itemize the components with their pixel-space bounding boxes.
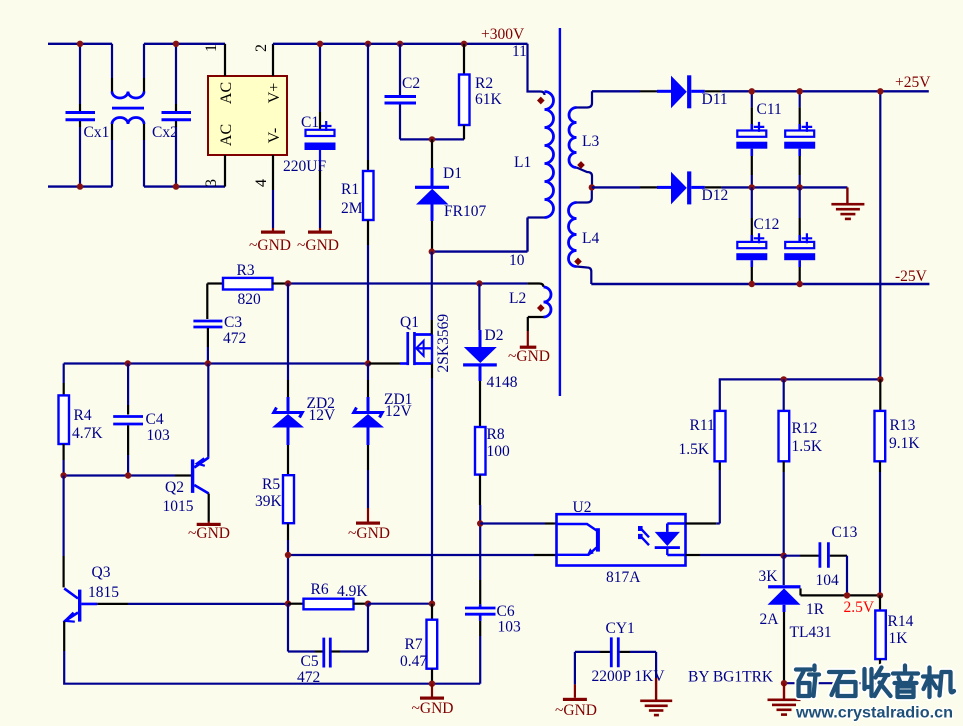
- wire left rail: [62, 476, 64, 588]
- capacitor C12b: [784, 187, 815, 284]
- svg-text:CY1: CY1: [606, 620, 635, 637]
- svg-text:472: 472: [223, 330, 246, 347]
- svg-text:R4: R4: [74, 407, 92, 424]
- svg-text:D11: D11: [702, 91, 728, 108]
- wire +300V rail: [273, 43, 528, 45]
- wire Q2 emitter line: [207, 364, 209, 457]
- svg-text:C1: C1: [301, 114, 319, 131]
- resistor R7 0.47: [400, 604, 437, 684]
- optocoupler U2 817A: [557, 499, 686, 586]
- wire R6 to R7: [368, 603, 432, 605]
- node 2.5V: [877, 592, 883, 598]
- node R7 top: [429, 601, 435, 607]
- capacitor C12a: [736, 187, 779, 284]
- svg-text:11: 11: [512, 43, 527, 60]
- zener ZD2 12V: [272, 284, 336, 476]
- pin 1 of U1: [203, 44, 225, 76]
- svg-text:V-: V-: [266, 128, 283, 143]
- svg-text:BY BG1TRK: BY BG1TRK: [688, 669, 774, 686]
- svg-text:~GND: ~GND: [508, 348, 550, 365]
- wire gate node: [64, 362, 369, 364]
- wire to transformer pin 10: [432, 218, 528, 252]
- svg-text:1.5K: 1.5K: [679, 441, 710, 458]
- node AC bottom left: [77, 183, 83, 189]
- svg-text:103: 103: [147, 427, 171, 444]
- node C11b bottom: [797, 184, 803, 190]
- svg-text:C13: C13: [832, 524, 858, 541]
- resistor R4 4.7K: [59, 364, 104, 476]
- svg-text:Cx1: Cx1: [84, 124, 110, 141]
- svg-text:C11: C11: [757, 101, 782, 118]
- node R2 on rail: [461, 41, 467, 47]
- svg-text:AC: AC: [218, 124, 235, 146]
- svg-text:D12: D12: [702, 187, 729, 204]
- node C13 ref: [844, 592, 850, 598]
- polarity dot L3: [577, 161, 585, 169]
- bridge rectifier U1: [208, 76, 287, 155]
- ground ~GND at R7: [412, 684, 454, 717]
- svg-text:L4: L4: [582, 230, 599, 247]
- pin 11 label: [512, 43, 527, 60]
- resistor R5 39K: [255, 475, 294, 604]
- note BY BG1TRK: [688, 669, 774, 686]
- node TL431 anode: [781, 680, 787, 686]
- ground ~GND at ZD1: [348, 508, 390, 542]
- svg-text:~GND: ~GND: [297, 237, 339, 254]
- svg-text:+300V: +300V: [481, 26, 525, 43]
- svg-text:~GND: ~GND: [555, 702, 597, 719]
- svg-text:R12: R12: [792, 420, 818, 437]
- svg-text:12V: 12V: [309, 407, 337, 424]
- resistor R1 2M: [341, 44, 374, 364]
- capacitor C5 472: [288, 604, 368, 686]
- svg-text:817A: 817A: [606, 569, 641, 586]
- capacitor C11b: [784, 91, 815, 187]
- svg-text:820: 820: [238, 291, 262, 308]
- svg-text:1815: 1815: [88, 584, 119, 601]
- node D2 top: [476, 280, 482, 286]
- node R5 bottom: [285, 601, 291, 607]
- svg-text:12V: 12V: [385, 403, 413, 420]
- svg-text:R13: R13: [890, 417, 916, 434]
- node C11b top: [797, 88, 803, 94]
- watermark url: [795, 705, 953, 722]
- svg-text:www.crystalradio.cn: www.crystalradio.cn: [795, 705, 953, 722]
- node C12b bottom: [797, 281, 803, 287]
- svg-text:220UF: 220UF: [283, 158, 326, 175]
- svg-text:TL431: TL431: [790, 624, 832, 641]
- svg-text:1R: 1R: [806, 601, 825, 618]
- node C4 bottom: [125, 472, 131, 478]
- svg-text:R6: R6: [311, 581, 329, 598]
- node C1 on rail: [317, 41, 323, 47]
- svg-text:L1: L1: [514, 154, 531, 171]
- resistor R8 100: [475, 426, 510, 524]
- svg-text:R8: R8: [487, 426, 505, 443]
- ground ~GND at Q2: [188, 522, 230, 543]
- svg-text:2SK3569: 2SK3569: [435, 314, 452, 373]
- svg-text:4.7K: 4.7K: [72, 425, 103, 442]
- wire gate-drive node: [288, 282, 527, 284]
- wire Q3 base to R6: [128, 603, 288, 605]
- resistor R11 1.5K: [679, 411, 726, 461]
- ground ~GND at C1: [297, 228, 339, 254]
- capacitor C3: [193, 284, 246, 364]
- wire feedback top rail: [720, 379, 881, 411]
- node R8 C6 U2 junction: [477, 520, 483, 526]
- svg-text:R7: R7: [405, 636, 423, 653]
- svg-text:100: 100: [487, 443, 511, 460]
- node -25V label: [895, 268, 928, 285]
- capacitor C13 104: [784, 524, 858, 595]
- svg-text:4.9K: 4.9K: [337, 583, 368, 600]
- pin 3 of U1: [112, 155, 225, 187]
- wire TL431 ref line: [801, 594, 881, 596]
- svg-text:3K: 3K: [759, 568, 779, 585]
- diode D2 4148: [463, 284, 518, 428]
- svg-text:C2: C2: [402, 75, 420, 92]
- transformer primary winding L1: [514, 44, 554, 218]
- pin 4 of U1: [253, 155, 273, 228]
- transformer secondary winding L3: [569, 91, 599, 187]
- capacitor CY1 2200P: [575, 620, 665, 685]
- diode D12: [592, 171, 728, 204]
- svg-text:L3: L3: [582, 133, 599, 150]
- node +25V label: [895, 74, 931, 91]
- transistor Q2 1015: [163, 457, 209, 522]
- shunt regulator TL431: [759, 556, 832, 684]
- svg-text:L2: L2: [509, 290, 526, 307]
- svg-text:61K: 61K: [475, 91, 503, 108]
- wire U2 pin2: [288, 554, 557, 556]
- resistor R2 61K: [459, 44, 503, 140]
- node +300V label: [481, 26, 525, 43]
- zener ZD1 12V: [352, 364, 413, 509]
- mosfet Q1 2SK3569: [369, 252, 452, 604]
- svg-text:1.5K: 1.5K: [792, 438, 823, 455]
- node sense tap: [877, 88, 883, 94]
- pin 2 of U1: [253, 44, 273, 76]
- wire Q2 base node: [64, 474, 190, 476]
- svg-text:3: 3: [203, 179, 220, 187]
- wire +25V rail: [721, 90, 928, 92]
- watermark logo kuangshi shouyinji: [796, 666, 954, 698]
- wire secondary mid rail: [721, 186, 847, 188]
- svg-text:R1: R1: [341, 181, 359, 198]
- wire AC line bottom: [48, 185, 225, 187]
- svg-text:10: 10: [509, 252, 525, 269]
- node R6 right: [365, 601, 371, 607]
- node AC top left: [77, 41, 83, 47]
- svg-text:D2: D2: [485, 327, 504, 344]
- transformer aux winding L2: [509, 284, 551, 332]
- svg-text:FR107: FR107: [444, 203, 486, 220]
- svg-text:104: 104: [816, 572, 840, 589]
- node U2 pin2 tap: [285, 552, 291, 558]
- transistor Q3 1815: [64, 564, 128, 651]
- node snubber D1: [429, 136, 435, 142]
- resistor R13 9.1K: [875, 379, 921, 595]
- svg-text:0.47: 0.47: [400, 653, 427, 670]
- svg-text:C4: C4: [146, 411, 164, 428]
- svg-text:~GND: ~GND: [249, 237, 291, 254]
- svg-text:2M: 2M: [341, 200, 363, 217]
- svg-text:+25V: +25V: [895, 74, 931, 91]
- svg-text:Cx2: Cx2: [152, 124, 178, 141]
- polarity dot L4: [574, 258, 582, 266]
- node R4 bottom: [60, 472, 66, 478]
- svg-text:4148: 4148: [487, 374, 518, 391]
- svg-text:-25V: -25V: [895, 268, 928, 285]
- node R12 top: [781, 376, 787, 382]
- wire snubber bottom: [400, 138, 464, 140]
- node D1 anode / drain: [429, 248, 435, 254]
- diode D11: [592, 75, 728, 108]
- transformer core: [559, 28, 561, 396]
- wire AC line top: [48, 43, 225, 45]
- svg-text:C3: C3: [224, 314, 242, 331]
- svg-text:C5: C5: [301, 653, 319, 670]
- transformer secondary winding L4: [569, 187, 600, 284]
- wire U2 pin4 to R11: [686, 461, 720, 523]
- svg-text:~GND: ~GND: [188, 525, 230, 542]
- wire bottom rail: [64, 651, 480, 684]
- node AC top right: [173, 41, 179, 47]
- svg-text:Q2: Q2: [165, 479, 184, 496]
- svg-text:~GND: ~GND: [348, 525, 390, 542]
- node R1 on rail: [365, 41, 371, 47]
- node AC bottom right: [173, 183, 179, 189]
- svg-text:R11: R11: [690, 417, 715, 434]
- resistor R3 820: [207, 262, 288, 308]
- node R7 bottom: [429, 681, 435, 687]
- svg-text:2.5V: 2.5V: [844, 599, 875, 616]
- wire U2 pin1: [480, 522, 556, 524]
- node R13 top: [877, 376, 883, 382]
- svg-text:D1: D1: [443, 165, 462, 182]
- svg-text:2: 2: [253, 44, 270, 52]
- wire TL431 anode to R14: [784, 682, 880, 684]
- node R3 right: [285, 280, 291, 286]
- svg-text:R5: R5: [262, 476, 280, 493]
- polarity dot L1: [537, 97, 545, 105]
- capacitor C1: [283, 44, 336, 228]
- ground ~GND at CY1: [555, 684, 597, 719]
- polarity dot L2: [537, 304, 545, 312]
- svg-text:U2: U2: [573, 499, 592, 516]
- svg-text:AC: AC: [218, 82, 235, 104]
- node R1 bottom: [365, 360, 371, 366]
- diode D1 FR107: [415, 139, 486, 251]
- resistor R6 4.9K: [288, 581, 368, 609]
- wire U2 pin3 LED cathode: [686, 554, 785, 556]
- node 2.5V label: [844, 599, 875, 616]
- pin 10 label: [509, 252, 525, 269]
- svg-text:~GND: ~GND: [412, 700, 454, 717]
- capacitor C2: [385, 44, 421, 140]
- svg-text:39K: 39K: [255, 493, 283, 510]
- node C4 top: [125, 360, 131, 366]
- resistor R12 1.5K: [779, 379, 823, 555]
- capacitor C4: [113, 364, 170, 476]
- resistor R14 1K: [875, 595, 913, 683]
- svg-text:2200P 1KV: 2200P 1KV: [592, 668, 666, 685]
- svg-text:R14: R14: [888, 613, 914, 630]
- svg-text:R2: R2: [475, 75, 493, 92]
- svg-text:4: 4: [253, 179, 270, 187]
- capacitor Cx1: [66, 44, 110, 187]
- svg-text:103: 103: [498, 619, 522, 636]
- svg-text:V+: V+: [266, 83, 283, 104]
- node C2 on rail: [397, 41, 403, 47]
- wire -25V rail: [591, 283, 929, 285]
- svg-text:C12: C12: [754, 216, 780, 233]
- common-mode choke L0: [112, 44, 144, 187]
- svg-text:9.1K: 9.1K: [889, 435, 920, 452]
- node transformer center tap: [589, 184, 595, 190]
- svg-text:2A: 2A: [760, 611, 780, 628]
- capacitor C6 103: [465, 524, 521, 684]
- svg-text:C6: C6: [497, 603, 515, 620]
- wire +25V sense line: [879, 91, 881, 379]
- node C3 bottom: [205, 360, 211, 366]
- svg-text:1015: 1015: [163, 498, 194, 515]
- earth ground CY1: [640, 678, 672, 716]
- capacitor Cx2: [152, 44, 191, 187]
- svg-text:Q3: Q3: [92, 564, 111, 581]
- ground ~GND at L2: [508, 331, 550, 365]
- svg-text:1: 1: [203, 44, 220, 52]
- svg-text:Q1: Q1: [400, 314, 419, 331]
- node C12a bottom: [749, 281, 755, 287]
- node C11a top: [749, 88, 755, 94]
- earth ground TL431: [768, 683, 801, 716]
- svg-text:1K: 1K: [889, 630, 909, 647]
- capacitor C11a: [736, 91, 781, 187]
- svg-text:R3: R3: [237, 262, 255, 279]
- ground ~GND at U1 pin 4: [249, 228, 291, 254]
- node LED cathode R12: [781, 553, 787, 559]
- earth ground secondary: [831, 187, 864, 220]
- node C11a bottom: [749, 184, 755, 190]
